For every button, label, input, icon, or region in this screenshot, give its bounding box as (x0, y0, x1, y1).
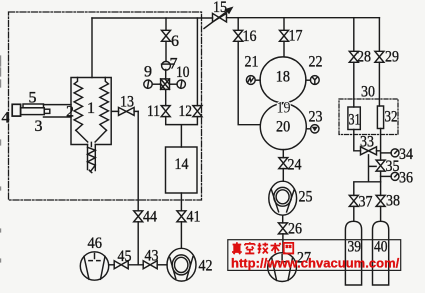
rod tip (44, 109, 50, 113)
left edge scan artifacts (0, 56, 2, 262)
vessel 1 coil left (74, 78, 82, 131)
vessel 1 coil right (100, 78, 109, 131)
pump 46 (80, 252, 108, 280)
svg-text:25: 25 (299, 189, 313, 206)
svg-text:6: 6 (171, 33, 179, 50)
svg-text:42: 42 (199, 258, 213, 275)
valve 44 (134, 211, 143, 222)
svg-text:39: 39 (348, 239, 362, 256)
svg-text:44: 44 (143, 209, 157, 226)
valve 38 (376, 195, 385, 206)
chamber 18 (260, 57, 306, 103)
wire: chamber 20 to valve 24 (282, 150, 284, 158)
gauge 36 stub (381, 175, 392, 177)
wire: pump 25 to valve 26 (282, 215, 284, 223)
svg-text:37: 37 (359, 194, 373, 211)
svg-text:30: 30 (361, 84, 375, 101)
wire: valve 37 to cylinder 39 (353, 206, 355, 221)
wire: valve 28 to getter 31 (353, 62, 355, 107)
dashed purifier box 30 (339, 99, 398, 135)
valve 13 (119, 107, 135, 115)
svg-text:22: 22 (309, 54, 323, 71)
svg-text:36: 36 (399, 170, 413, 187)
valve 45 (114, 261, 128, 269)
valve 15 (213, 13, 227, 22)
svg-text:46: 46 (88, 235, 103, 252)
getter 32 (377, 106, 383, 129)
wire: valve 29 to getter 32 (378, 62, 380, 106)
svg-text:38: 38 (386, 193, 400, 210)
chamber 20 (260, 104, 306, 150)
svg-text:5: 5 (29, 90, 37, 107)
svg-text:15: 15 (213, 0, 227, 16)
svg-text:31: 31 (349, 112, 361, 129)
valve 35 (376, 160, 385, 171)
valve 37 (349, 195, 358, 206)
wire: vessel top feed (91, 18, 93, 78)
svg-text:28: 28 (357, 49, 371, 66)
pump 25 (269, 181, 297, 215)
watermark chinese text 真空技术网 (232, 242, 293, 254)
gauge 10 stub (170, 83, 178, 85)
trap 8 box (161, 79, 170, 90)
wire: valve 16 down to chamber 20 (238, 41, 260, 124)
wire: below valve 35 to gauge 36 junction (380, 171, 382, 182)
svg-text:12: 12 (179, 103, 193, 120)
svg-text:24: 24 (288, 157, 302, 174)
wire: valve 24 to pump 25 (282, 169, 284, 182)
svg-text:4: 4 (2, 110, 10, 127)
cold finger tube below vessel (88, 145, 96, 171)
svg-text:43: 43 (145, 248, 159, 265)
svg-text:18: 18 (276, 68, 290, 85)
wire: main top line from vessel to valve 15 (92, 17, 213, 19)
cylinder 40 (373, 221, 389, 285)
svg-text:26: 26 (288, 221, 302, 238)
valve 41 (177, 211, 186, 222)
wire: getter 32 down to valve 33 right (377, 129, 381, 161)
gauge 9 (144, 80, 152, 88)
svg-text:1: 1 (87, 100, 95, 117)
watermark box (228, 240, 401, 271)
dashed enclosure box (main system boundary) (9, 12, 202, 200)
wire: valve 26 to pump 27 (282, 234, 284, 253)
wire: branch down to valve 12 (196, 18, 198, 106)
wire: branch to valve 16 (237, 18, 239, 31)
wire: valve 33 center down and jumper (369, 155, 377, 182)
wire: right end down to valve 29 (378, 18, 380, 52)
svg-text:20: 20 (276, 119, 290, 136)
wire: getter 31 down to valve 33 (354, 130, 361, 151)
wire: gauge 7 to trap 8 (165, 70, 167, 79)
svg-text:33: 33 (360, 134, 374, 151)
svg-text:13: 13 (120, 94, 134, 111)
rod bar 5 (23, 104, 44, 108)
wire: manifold to cylinder valves (354, 182, 381, 196)
gauge 36 (391, 172, 399, 180)
wire: valve 43 to pump 42 (157, 264, 167, 266)
wire: branch to valve 28 (353, 18, 355, 52)
gauge 9 stub (152, 83, 160, 85)
valve 6 (162, 30, 171, 41)
svg-text:14: 14 (175, 156, 189, 173)
valve 29 (375, 51, 384, 62)
svg-text:16: 16 (243, 28, 257, 45)
getter 31 (348, 107, 360, 130)
svg-text:40: 40 (374, 239, 388, 256)
rod bar 3 (21, 108, 45, 115)
svg-text:41: 41 (187, 209, 201, 226)
vessel funnel to cold finger (76, 130, 107, 146)
wire: tank 14 to valve 41 (180, 193, 182, 211)
svg-text:23: 23 (309, 108, 323, 125)
rod box 4 (12, 104, 20, 116)
wire: branch to valve 6 (165, 18, 167, 30)
gauge 22 stub (306, 79, 311, 81)
valve 43 (143, 261, 157, 269)
valve 24 (279, 158, 288, 169)
gauge 10 (177, 80, 185, 88)
gauge 34 (391, 149, 399, 157)
gauge 21 stub (255, 79, 260, 81)
valve 16 (234, 30, 243, 41)
wire: valves 11,12 manifold to tank 14 (166, 117, 198, 147)
svg-text:29: 29 (385, 49, 399, 66)
svg-text:11: 11 (147, 103, 160, 120)
wire: valve 41 to pump 42 (180, 222, 182, 249)
wire: trap 8 to valve 11 (165, 90, 167, 106)
svg-text:9: 9 (144, 64, 152, 81)
svg-text:2: 2 (66, 104, 74, 121)
cold finger hatch (88, 147, 96, 172)
svg-text:17: 17 (289, 28, 303, 45)
pump 27 (268, 253, 297, 282)
valve 26 (278, 223, 287, 234)
svg-text:35: 35 (386, 158, 400, 175)
svg-text:http://www.chvacuum.com/: http://www.chvacuum.com/ (231, 256, 400, 271)
svg-text:3: 3 (35, 118, 43, 135)
gauge 34 stub (381, 152, 392, 154)
tank 14 (166, 147, 198, 193)
wire: valve 17 to chamber 18 (283, 41, 285, 57)
valve 28 (349, 51, 358, 62)
svg-text:32: 32 (385, 109, 398, 126)
valve 33 (361, 147, 377, 155)
wire: branch to valve 17 (283, 18, 285, 31)
valve 17 (280, 30, 289, 41)
svg-text:34: 34 (399, 146, 413, 163)
gauge 22 (310, 76, 319, 85)
gauge 23 stub (306, 128, 310, 130)
vessel 1 body (71, 78, 111, 145)
valve 12 (193, 106, 202, 117)
valve 11 (161, 106, 170, 117)
svg-text:10: 10 (176, 64, 190, 81)
cylinder 39 (345, 221, 361, 285)
svg-text:19: 19 (277, 100, 291, 117)
pump 42 (167, 248, 196, 281)
gauge 21 (246, 76, 255, 85)
wire: pump 46 to valve 45 (109, 264, 115, 266)
wire: main top line from valve 15 to right end (227, 17, 380, 19)
sample rod port lines into vessel (44, 105, 72, 117)
valve 13 piping (111, 110, 138, 112)
gauge 23 (311, 125, 319, 133)
wire: valve 38 to cylinder 40 (380, 206, 382, 221)
gauge 7 (162, 61, 171, 70)
wire: valve 45 to valve 43 (128, 264, 143, 266)
svg-text:45: 45 (118, 248, 132, 265)
wire: valve 6 to gauge 7 (165, 41, 167, 61)
svg-text:21: 21 (245, 54, 259, 71)
wire: down from valve 13 to valve 44 (137, 111, 139, 210)
wire: valve 44 to pump manifold (137, 222, 139, 265)
